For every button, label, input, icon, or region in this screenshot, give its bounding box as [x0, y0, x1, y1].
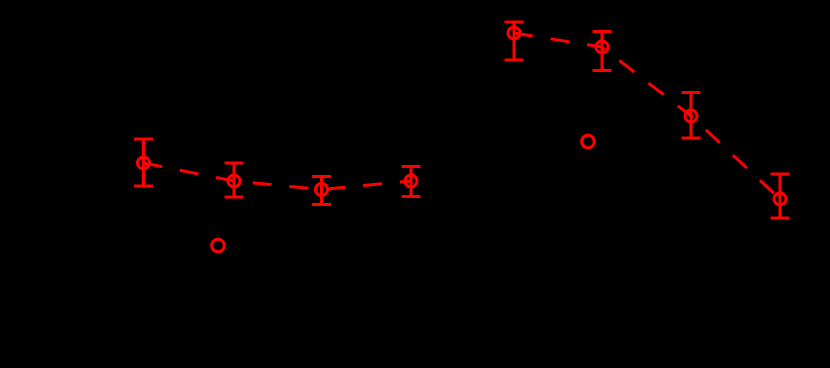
right error bar point 3 [682, 93, 701, 139]
right marker point 4 [774, 193, 786, 205]
right marker point 3 [685, 110, 697, 122]
left marker point 1 [138, 157, 150, 169]
right legend marker [582, 135, 595, 148]
right marker point 1 [508, 27, 520, 39]
left error bar point 1 [134, 139, 153, 186]
left legend marker [212, 239, 225, 252]
right marker point 2 [596, 41, 608, 53]
right error bar point 4 [771, 174, 790, 218]
left error bar point 3 [312, 177, 331, 205]
left marker point 2 [228, 175, 240, 187]
right error bar point 2 [593, 32, 612, 71]
right panel dashed series line [514, 33, 780, 199]
left error bar point 2 [225, 163, 244, 197]
left error bar point 4 [402, 167, 421, 197]
left marker point 4 [405, 175, 417, 187]
left panel dashed series line [144, 163, 412, 190]
right error bar point 1 [505, 22, 524, 60]
left marker point 3 [316, 184, 328, 196]
